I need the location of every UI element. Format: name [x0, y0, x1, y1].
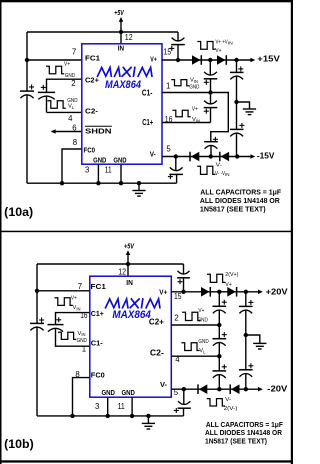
- svg-text:VIN: VIN: [190, 78, 198, 84]
- svg-text:1: 1: [166, 82, 170, 91]
- svg-text:4: 4: [175, 355, 180, 364]
- junction FC1/rail (10a): [25, 58, 29, 62]
- svg-text:12: 12: [118, 267, 126, 276]
- wire cap to V+ node (10b): [183, 278, 185, 292]
- junction +5V/IN (10a): [119, 30, 123, 34]
- junction D7-D8 (10b): [217, 387, 221, 391]
- wire C1+ pin16 (10a): [162, 122, 211, 124]
- wire cap to V+ node (10a): [177, 45, 179, 60]
- svg-text:ALL CAPACITORS = 1μF: ALL CAPACITORS = 1μF: [206, 422, 284, 429]
- svg-text:7: 7: [78, 282, 82, 291]
- junction V- node (10b): [182, 387, 186, 391]
- svg-text:11: 11: [105, 166, 112, 175]
- svg-text:V-: V-: [150, 149, 156, 158]
- svg-text:C2-: C2-: [150, 347, 164, 357]
- waveform symbol bottom swing (10b): [207, 399, 225, 406]
- wire C2- pin4 (10b): [171, 355, 219, 357]
- diode D1 (10a): [192, 55, 200, 65]
- svg-text:SHDN: SHDN: [85, 126, 112, 135]
- wire top rail to cap bracket (10a): [177, 32, 179, 41]
- capacitor C7 ground to -15V (10a): [236, 102, 238, 129]
- svg-text:2: 2: [71, 79, 75, 88]
- svg-text:15: 15: [164, 47, 172, 56]
- svg-text:V+: V+: [192, 107, 198, 113]
- capacitor C_vplus V+ to IN (10a): [171, 44, 185, 46]
- svg-text:3: 3: [85, 166, 89, 175]
- svg-text:2(V+): 2(V+): [225, 272, 238, 278]
- svg-text:MAX864: MAX864: [112, 309, 151, 321]
- capacitor C8 ladder cap1 (10b): [218, 292, 220, 307]
- svg-text:C2+: C2+: [85, 76, 100, 85]
- wire V+ pin15 row (10b): [171, 291, 259, 293]
- svg-text:8: 8: [73, 138, 77, 147]
- wire FC0 pin8 to ground rail (10a): [62, 149, 82, 183]
- svg-text:V+: V+: [71, 295, 77, 301]
- arrow +15V output (10a): [250, 58, 255, 63]
- wire V- cap to ground rail (10a): [176, 174, 178, 183]
- svg-text:+5V: +5V: [114, 10, 124, 17]
- svg-text:15: 15: [174, 292, 182, 301]
- capacitor C11 +20V output cap (10b): [245, 292, 247, 307]
- waveform symbol C2- swing (10a): [48, 101, 66, 108]
- capacitor C4 C1- node to C1+ (10a): [204, 107, 218, 109]
- capacitor C3 node A to C1- (10a): [204, 78, 218, 80]
- svg-text:3: 3: [95, 402, 99, 411]
- wire zigzag C1- node to C5 (10a): [211, 93, 229, 142]
- wire IN drop pin12 (10b): [127, 264, 129, 276]
- svg-text:VL: VL: [199, 348, 206, 354]
- wire FC1 pin7 to rail (10b): [37, 290, 90, 292]
- junction D5-D6 (10b): [217, 290, 221, 294]
- junction FC0/rail (10b): [70, 414, 74, 418]
- diode D4 (10a): [219, 152, 221, 162]
- junction V+ node (10b): [181, 290, 185, 294]
- +5V arrow (10b): [126, 250, 131, 255]
- svg-text:8: 8: [75, 370, 79, 379]
- svg-text:V- -VIN: V- -VIN: [215, 171, 230, 177]
- svg-text:1: 1: [82, 345, 86, 354]
- junction output caps to ground (10b): [244, 333, 248, 337]
- svg-text:4: 4: [68, 114, 73, 123]
- svg-text:V+: V+: [159, 287, 167, 296]
- +5V arrow (10a): [119, 17, 124, 22]
- waveform symbol C1- swing (10a): [171, 80, 189, 86]
- wire V+ pin15 row (10a): [162, 59, 252, 61]
- wire V- cap to ground rail (10b): [183, 408, 185, 416]
- wire left rail upper (10b): [36, 264, 38, 323]
- svg-text:GND: GND: [101, 388, 115, 397]
- diode D2 (10a): [217, 55, 225, 65]
- wire GND pin11 stub (10b): [131, 397, 133, 416]
- border frame: [0, 0, 293, 2]
- divider line between 10a and 10b: [0, 231, 293, 233]
- junction GND3 (10a): [96, 181, 100, 185]
- svg-text:FC1: FC1: [85, 53, 101, 62]
- svg-text:+15V: +15V: [257, 53, 280, 63]
- svg-text:GND: GND: [189, 85, 199, 91]
- svg-text:V+: V+: [225, 282, 232, 288]
- svg-text:V-: V-: [216, 163, 222, 169]
- svg-text:GND: GND: [198, 339, 208, 345]
- ground symbol (10b): [147, 416, 149, 423]
- svg-text:V+ +VIN: V+ +VIN: [216, 39, 233, 45]
- arrow -20V output (10b): [258, 387, 263, 392]
- svg-text:FC0: FC0: [91, 370, 105, 379]
- diode D7 (10b): [197, 384, 199, 394]
- diode D6 (10b): [227, 287, 235, 297]
- junction V- node (10a): [174, 154, 178, 158]
- svg-text:GND: GND: [121, 388, 135, 397]
- svg-text:2(V-): 2(V-): [224, 406, 238, 412]
- wire top rail bracket to cap (10b): [183, 264, 185, 274]
- svg-text:7: 7: [72, 48, 76, 57]
- junction GND11 (10a): [119, 181, 123, 185]
- wire bottom ground rail (10b): [37, 415, 184, 417]
- ground symbol right (10b): [253, 342, 266, 344]
- svg-text:+5V: +5V: [124, 243, 135, 250]
- arrow +20V output (10b): [258, 290, 263, 295]
- svg-text:GND: GND: [93, 155, 107, 164]
- svg-text:V-: V-: [160, 380, 167, 389]
- junction FC1/rail (10b): [35, 289, 39, 293]
- wire C2 bottom to pin4 (10a): [46, 96, 48, 112]
- svg-text:5: 5: [166, 144, 171, 153]
- svg-text:GND: GND: [77, 338, 87, 344]
- wire V- pin5 row (10a): [162, 156, 252, 158]
- junction FC0/ground rail (10a): [60, 181, 64, 185]
- svg-text:C1-: C1-: [142, 88, 153, 98]
- capacitor C_in input bypass (10a): [29, 86, 34, 88]
- svg-text:ALL DIODES 1N4148 OR: ALL DIODES 1N4148 OR: [205, 430, 282, 437]
- svg-text:C1+: C1+: [142, 117, 153, 127]
- svg-text:IN: IN: [126, 278, 133, 287]
- junction V+ node (10a): [176, 58, 180, 62]
- wire top rail (10a): [27, 31, 178, 33]
- wire GND pin11 stub (10a): [120, 164, 122, 183]
- svg-text:V+: V+: [64, 61, 70, 67]
- waveform symbol C2+ swing (10a): [46, 66, 64, 74]
- waveform symbol C2+ swing (10b): [182, 312, 200, 320]
- svg-text:5: 5: [174, 388, 179, 397]
- wire IN drop to pin 12 (10a): [120, 32, 122, 44]
- diode D8 (10b): [229, 384, 231, 394]
- junction ground symbol (10b): [146, 414, 150, 418]
- svg-text:VL: VL: [68, 104, 75, 110]
- wire to ground symbol right (10a): [237, 102, 250, 109]
- capacitor C2 flying (10a): [41, 86, 46, 88]
- capacitor C_in input bypass (10b): [39, 319, 44, 321]
- waveform symbol C2- swing (10b): [181, 343, 199, 351]
- svg-text:GND: GND: [198, 317, 208, 323]
- wire top rail (10b): [37, 263, 184, 265]
- wire FC0 pin8 to ground rail (10b): [73, 378, 90, 416]
- junction +15V output node (10a): [234, 58, 238, 62]
- svg-text:V+: V+: [198, 308, 204, 314]
- svg-text:FC0: FC0: [84, 145, 96, 154]
- junction GND11 (10b): [130, 414, 134, 418]
- svg-text:(10b): (10b): [4, 437, 34, 451]
- capacitor C_vplus V+ to IN (10b): [177, 277, 190, 279]
- svg-text:C1-: C1-: [91, 339, 103, 348]
- ground symbol right (10a): [243, 108, 256, 110]
- wire C1 bottom to pin1 (10b): [56, 328, 90, 346]
- svg-text:V+: V+: [215, 48, 221, 54]
- svg-text:1N5817 (SEE TEXT): 1N5817 (SEE TEXT): [205, 439, 267, 446]
- junction D1-D2 node A (10a): [208, 58, 212, 62]
- junction -15V output node (10a): [235, 154, 239, 158]
- svg-text:V-: V-: [225, 397, 231, 403]
- capacitor C_vminus output cap at pin5 (10a): [175, 157, 177, 171]
- junction +20V output node (10b): [244, 290, 248, 294]
- wire C1- pin1 (10a): [162, 92, 211, 94]
- svg-text:C2+: C2+: [149, 317, 164, 327]
- waveform symbol C1- swing (10b): [58, 332, 76, 339]
- capacitor C9 ladder cap2 (10b): [218, 325, 220, 339]
- junction -20V output node (10b): [244, 387, 248, 391]
- svg-text:11: 11: [118, 402, 125, 411]
- ground symbol (10a): [138, 183, 140, 190]
- wire GND pin3 stub (10b): [107, 397, 109, 416]
- svg-text:16: 16: [165, 115, 173, 124]
- wire GND pin3 stub (10a): [97, 164, 99, 183]
- junction C2+ node (10b): [217, 323, 221, 327]
- svg-text:GND: GND: [113, 155, 127, 164]
- svg-text:V+: V+: [150, 54, 157, 63]
- IC U2 MAX864 box (10b): [90, 276, 172, 397]
- wire C1+ pin16 elbow (10b): [56, 313, 90, 325]
- svg-text:12: 12: [125, 33, 133, 42]
- svg-text:6: 6: [72, 123, 76, 132]
- wire V- pin5 row (10b): [171, 388, 259, 390]
- diode D3 (10a): [189, 152, 191, 162]
- svg-text:FC1: FC1: [91, 282, 107, 291]
- svg-text:(10a): (10a): [4, 205, 33, 219]
- junction +5V/IN (10b): [126, 262, 130, 266]
- junction C1- node (10a): [208, 90, 212, 94]
- wire FC1 pin7 to +5V rail (10a): [27, 59, 82, 61]
- diode D5 (10b): [201, 287, 209, 297]
- svg-text:+20V: +20V: [266, 287, 288, 297]
- svg-text:IN: IN: [118, 44, 124, 53]
- wire bottom ground rail (10a): [27, 182, 177, 184]
- waveform symbol V- ladder swing (10a): [197, 166, 215, 174]
- MAXIM logo (10a): [98, 68, 152, 77]
- waveform symbol C1+ swing (10a): [173, 110, 191, 117]
- wire to ground symbol right (10b): [246, 335, 260, 343]
- capacitor C_vminus output cap at pin V- (10b): [183, 389, 185, 404]
- capacitor C12 ground to -20V (10b): [245, 335, 247, 370]
- MAXIM logo (10b): [106, 299, 160, 308]
- junction GND3 (10b): [106, 414, 110, 418]
- arrow -15V output (10a): [250, 154, 255, 159]
- svg-text:ALL CAPACITORS = 1μF: ALL CAPACITORS = 1μF: [200, 190, 282, 197]
- waveform symbol C1+ swing (10b): [55, 298, 73, 306]
- capacitor C1 flying (10b): [56, 319, 61, 321]
- junction D3-D4 (10a): [209, 154, 213, 158]
- svg-text:VIN: VIN: [192, 117, 200, 123]
- svg-text:-15V: -15V: [257, 150, 275, 160]
- junction C2- node (10b): [217, 354, 221, 358]
- svg-text:C2-: C2-: [85, 106, 98, 115]
- capacitor C10 ladder cap3 (10b): [218, 356, 220, 371]
- arrow SHDN input (10a): [51, 129, 56, 134]
- wire left rail upper (10a): [26, 32, 28, 91]
- svg-text:16: 16: [80, 311, 87, 320]
- wire SHDN pin6 input (10a): [52, 131, 83, 133]
- wire C2+ pin2 elbow (10a): [47, 79, 83, 92]
- capacitor C6 +15V output cap (10a): [238, 68, 243, 70]
- svg-text:VIN: VIN: [78, 331, 86, 337]
- wire left rail lower (10a): [26, 95, 28, 183]
- svg-text:-20V: -20V: [267, 384, 287, 394]
- svg-text:1N5817 (SEE TEXT): 1N5817 (SEE TEXT): [200, 206, 266, 213]
- capacitor C5 to negative ladder (10a): [213, 138, 218, 140]
- waveform symbol node A swing (10a): [197, 42, 215, 50]
- svg-text:MAX864: MAX864: [105, 79, 141, 91]
- wire C2+ pin2 (10b): [171, 324, 219, 326]
- svg-text:ALL DIODES 1N4148 OR: ALL DIODES 1N4148 OR: [200, 198, 280, 205]
- waveform symbol top swing (10b): [207, 274, 225, 282]
- wire left rail lower (10b): [36, 327, 38, 416]
- junction ground symbol (10a): [137, 181, 141, 185]
- junction output cap to ground (10a): [234, 100, 238, 104]
- IC U1 MAX864 box (10a): [82, 44, 162, 164]
- wire C2- pin4 (10a): [47, 111, 83, 113]
- svg-text:2: 2: [174, 314, 178, 323]
- svg-text:C1+: C1+: [91, 309, 105, 318]
